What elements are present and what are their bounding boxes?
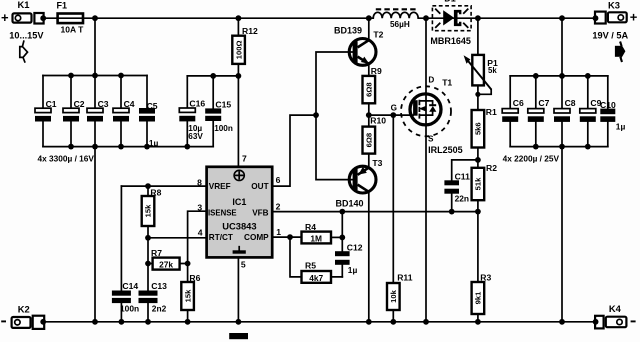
capacitor C16 10u 63V <box>179 76 205 147</box>
wire: top supply rail from K1 to K3 with junction dots <box>40 15 598 21</box>
wire: right capacitor bank top rail <box>510 73 608 79</box>
svg-text:BD140: BD140 <box>336 199 364 209</box>
svg-text:D1: D1 <box>444 0 456 4</box>
svg-text:8: 8 <box>197 178 202 188</box>
svg-text:VFB: VFB <box>252 209 268 218</box>
svg-text:63V: 63V <box>188 132 203 141</box>
svg-text:6Ω8: 6Ω8 <box>365 82 374 97</box>
svg-text:100Ω: 100Ω <box>234 40 243 59</box>
wire: left capacitor bank top rail <box>43 73 147 79</box>
resistor R3 9k1 <box>472 212 492 322</box>
svg-text:22n: 22n <box>455 193 469 203</box>
connector K3 <box>592 0 637 41</box>
svg-text:10k: 10k <box>389 289 398 302</box>
svg-text:C14: C14 <box>122 281 138 291</box>
svg-text:2: 2 <box>276 201 281 211</box>
svg-text:1µ: 1µ <box>616 121 626 131</box>
transistor T1 IRL2505 (N-MOSFET) <box>401 18 463 155</box>
svg-text:C5: C5 <box>147 101 158 111</box>
svg-text:6Ω8: 6Ω8 <box>365 133 374 148</box>
wire: pin 8 VREF line <box>121 178 206 189</box>
svg-text:IRL2505: IRL2505 <box>428 145 463 155</box>
transistor T2 BD139 (NPN) <box>334 18 384 76</box>
svg-text:S: S <box>428 135 434 144</box>
svg-text:9k1: 9k1 <box>474 291 483 304</box>
svg-text:C15: C15 <box>215 99 231 109</box>
wire: driver base column <box>316 52 353 180</box>
svg-text:K3: K3 <box>608 0 620 10</box>
IC1 internal ground bar symbol <box>233 247 246 254</box>
svg-text:C4: C4 <box>124 99 135 109</box>
ground symbol below pin 5 <box>229 333 248 339</box>
svg-text:RT/CT: RT/CT <box>209 233 233 242</box>
resistor R9 6R8 <box>363 66 383 103</box>
connector K4 <box>595 303 636 329</box>
svg-text:VREF: VREF <box>209 182 231 191</box>
svg-text:R3: R3 <box>480 273 491 283</box>
wire: VCC feed to IC pin 7 <box>237 76 239 166</box>
wire: T1 source to ground rail <box>425 126 427 322</box>
svg-text:OUT: OUT <box>251 182 268 191</box>
svg-text:5k: 5k <box>488 66 497 75</box>
svg-text:C2: C2 <box>74 99 85 109</box>
svg-text:27k: 27k <box>159 260 173 270</box>
capacitor C4 <box>113 76 135 147</box>
wire: input column from fuse node down to filter bank <box>94 18 96 75</box>
svg-text:15k: 15k <box>144 204 153 217</box>
svg-text:C7: C7 <box>538 98 549 108</box>
svg-text:4: 4 <box>198 227 203 237</box>
capacitor C14 100n <box>112 281 139 322</box>
wire: pin 2 VFB line <box>272 201 481 214</box>
wire: pin 5 ground lead <box>238 257 246 321</box>
wire: gate drive line to T1 <box>369 103 409 118</box>
resistor R1 5k6 <box>472 107 497 160</box>
svg-text:C1: C1 <box>46 99 57 109</box>
input voltage arrow symbol <box>20 41 28 62</box>
capacitor C5 1u <box>139 76 159 149</box>
svg-text:C11: C11 <box>455 171 471 181</box>
svg-text:4x 2200µ / 25V: 4x 2200µ / 25V <box>503 154 560 164</box>
svg-text:4x 3300µ / 16V: 4x 3300µ / 16V <box>38 154 95 164</box>
wire: right capacitor bank bottom rail <box>510 144 608 150</box>
svg-text:+: + <box>630 10 638 25</box>
svg-text:R12: R12 <box>242 26 258 36</box>
svg-text:R10: R10 <box>370 116 386 126</box>
resistor R11 10k (gate to ground) <box>387 115 413 322</box>
svg-text:COMP: COMP <box>244 233 269 242</box>
capacitor C11 22n <box>444 160 478 212</box>
resistor R12 100R <box>232 18 258 76</box>
resistor R2 51k <box>472 160 498 212</box>
diode D1 MBR1645 <box>430 0 471 46</box>
svg-text:G: G <box>391 103 397 112</box>
svg-text:100n: 100n <box>214 124 233 133</box>
svg-text:5: 5 <box>241 259 246 269</box>
wire: VCC decoupling rail (R12 node to C16/C15) <box>187 73 241 79</box>
wire: ground column from bank to bottom rail <box>94 147 96 322</box>
wire: pin 4 RT/CT line <box>145 227 207 240</box>
wire: pin 1 COMP line <box>272 227 302 240</box>
svg-text:2n2: 2n2 <box>152 304 167 314</box>
svg-text:56µH: 56µH <box>390 20 410 29</box>
svg-text:T1: T1 <box>442 77 452 87</box>
wire: pin 6 OUT line up and over to driver bases <box>272 112 319 186</box>
svg-text:C6: C6 <box>513 98 524 108</box>
svg-text:1M: 1M <box>310 233 322 243</box>
resistor R6 15k <box>181 264 200 322</box>
svg-text:6: 6 <box>276 175 281 185</box>
wire: output column through C8 from top rail to ground <box>561 18 563 322</box>
capacitor C3 <box>87 76 109 147</box>
svg-text:BD139: BD139 <box>334 26 362 36</box>
svg-text:D: D <box>428 76 434 85</box>
svg-text:10A T: 10A T <box>61 25 85 35</box>
resistor R10 6R8 <box>363 116 387 154</box>
svg-text:51k: 51k <box>474 177 483 190</box>
capacitor C6 <box>502 76 524 147</box>
svg-text:10...15V: 10...15V <box>9 31 44 41</box>
wire: R9/R10 emitter junction to gate <box>366 103 372 126</box>
capacitor C2 <box>63 76 85 147</box>
capacitor C8 <box>554 76 576 147</box>
capacitor C10 1u <box>600 76 625 147</box>
capacitor C15 100n <box>205 76 233 147</box>
svg-text:F1: F1 <box>57 1 68 11</box>
svg-text:R5: R5 <box>305 261 316 271</box>
svg-text:IC1: IC1 <box>232 197 246 207</box>
svg-text:4k7: 4k7 <box>309 273 323 283</box>
svg-text:R7: R7 <box>151 248 162 258</box>
fuse F1 10A T <box>57 1 85 35</box>
svg-text:R6: R6 <box>189 273 200 283</box>
svg-text:1: 1 <box>276 227 281 237</box>
svg-text:R11: R11 <box>397 273 413 283</box>
svg-text:C12: C12 <box>347 242 363 252</box>
capacitor C1 <box>35 76 57 147</box>
svg-text:R8: R8 <box>150 188 161 198</box>
svg-text:C8: C8 <box>565 98 576 108</box>
svg-text:MBR1645: MBR1645 <box>430 36 471 46</box>
transistor T3 BD140 (PNP) <box>336 154 383 322</box>
resistor R5 4k7 with branch from COMP <box>290 237 342 283</box>
svg-text:T2: T2 <box>373 29 383 39</box>
svg-text:C3: C3 <box>98 99 109 109</box>
connector K1 <box>1 0 44 41</box>
svg-text:R9: R9 <box>371 66 382 76</box>
svg-text:C13: C13 <box>151 281 167 291</box>
svg-text:5k6: 5k6 <box>474 122 483 135</box>
wire: left capacitor bank bottom rail <box>43 144 213 150</box>
node A: R1/R2/C11 junction <box>475 157 481 163</box>
potentiometer P1 5k <box>464 18 498 110</box>
svg-text:3: 3 <box>197 202 202 212</box>
svg-text:ISENSE: ISENSE <box>208 209 237 218</box>
svg-text:1µ: 1µ <box>149 138 159 148</box>
capacitor C7 <box>528 76 550 147</box>
svg-text:+: + <box>1 10 9 25</box>
IC1 internal supply symbol (circled plus) <box>234 170 244 180</box>
svg-text:K1: K1 <box>18 0 30 10</box>
wire: pin 3 ISENSE line <box>188 202 207 263</box>
capacitor C12 1u in VFB column <box>335 212 363 277</box>
capacitor C9 <box>580 76 602 147</box>
wire: bottom ground rail from K2 to K4 with junction dots <box>40 319 598 325</box>
capacitor C13 2n2 <box>139 264 168 322</box>
svg-text:C16: C16 <box>189 99 205 109</box>
svg-text:15k: 15k <box>183 289 192 302</box>
svg-text:T3: T3 <box>372 158 382 168</box>
inductor L1 56uH <box>373 9 418 29</box>
svg-text:UC3843: UC3843 <box>222 221 256 232</box>
resistor R4 1M <box>302 222 346 243</box>
svg-text:1µ: 1µ <box>348 265 358 275</box>
svg-text:R1: R1 <box>486 107 497 117</box>
svg-text:7: 7 <box>242 153 247 163</box>
wire: VREF column down to C14 <box>120 186 122 290</box>
svg-text:R4: R4 <box>305 222 316 232</box>
connector K2 <box>1 303 44 329</box>
svg-text:C10: C10 <box>600 100 616 110</box>
svg-text:19V / 5A: 19V / 5A <box>592 31 628 41</box>
resistor R7 27k <box>145 248 190 269</box>
svg-text:R2: R2 <box>486 163 497 173</box>
resistor R8 15k <box>142 186 162 263</box>
output voltage arrow symbol (solid) <box>615 42 626 63</box>
op-amp-controller IC1 UC3843 body <box>207 167 273 258</box>
svg-text:100n: 100n <box>120 304 139 314</box>
svg-text:K4: K4 <box>609 303 622 314</box>
svg-text:K2: K2 <box>18 303 30 314</box>
